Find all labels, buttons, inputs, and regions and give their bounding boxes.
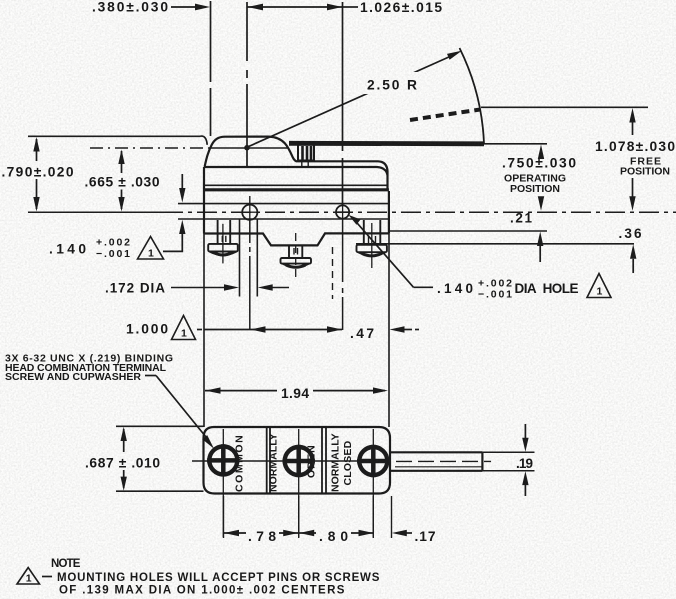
- svg-text:+.002: +.002: [96, 237, 130, 249]
- svg-text:NORMALLY: NORMALLY: [330, 433, 342, 492]
- svg-text:.21: .21: [510, 211, 532, 226]
- svg-text:DIA HOLE: DIA HOLE: [515, 281, 579, 296]
- svg-text:.36: .36: [619, 226, 642, 241]
- svg-text:.750±.030: .750±.030: [502, 156, 576, 171]
- svg-text:1: 1: [181, 328, 187, 340]
- svg-text:NORMALLY: NORMALLY: [268, 433, 280, 492]
- svg-text:.687 ± .010: .687 ± .010: [85, 456, 160, 471]
- svg-text:COMMON: COMMON: [234, 435, 246, 492]
- svg-text:SCREW AND CUPWASHER: SCREW AND CUPWASHER: [5, 371, 141, 383]
- svg-text:OF .139 MAX DIA ON 1.000± .002: OF .139 MAX DIA ON 1.000± .002 CENTERS: [59, 585, 345, 597]
- svg-text:MOUNTING HOLES WILL ACCEPT PIN: MOUNTING HOLES WILL ACCEPT PINS OR SCREW…: [57, 572, 380, 584]
- svg-text:−.001: −.001: [96, 248, 130, 260]
- svg-text:NOTE: NOTE: [51, 558, 81, 570]
- svg-text:1: 1: [26, 573, 32, 585]
- svg-text:.47: .47: [350, 326, 374, 341]
- svg-text:−.001: −.001: [478, 289, 512, 301]
- svg-text:.17: .17: [415, 529, 436, 544]
- svg-text:1: 1: [597, 286, 603, 298]
- svg-text:POSITION: POSITION: [620, 166, 670, 178]
- svg-text:1.000: 1.000: [126, 322, 168, 337]
- svg-text:.665 ± .030: .665 ± .030: [85, 175, 160, 190]
- svg-text:1.026±.015: 1.026±.015: [360, 0, 442, 15]
- svg-text:1.078±.030: 1.078±.030: [595, 139, 675, 154]
- svg-text:POSITION: POSITION: [510, 183, 560, 195]
- svg-text:OPEN: OPEN: [306, 445, 318, 478]
- svg-text:2.50 R: 2.50 R: [367, 78, 417, 93]
- svg-text:.172 DIA: .172 DIA: [105, 281, 165, 296]
- svg-text:.380±.030: .380±.030: [92, 0, 168, 15]
- svg-text:.19: .19: [516, 456, 533, 471]
- svg-text:1.94: 1.94: [281, 386, 309, 401]
- svg-text:.790±.020: .790±.020: [2, 165, 74, 180]
- svg-text:CLOSED: CLOSED: [342, 440, 354, 485]
- svg-text:1: 1: [148, 248, 154, 260]
